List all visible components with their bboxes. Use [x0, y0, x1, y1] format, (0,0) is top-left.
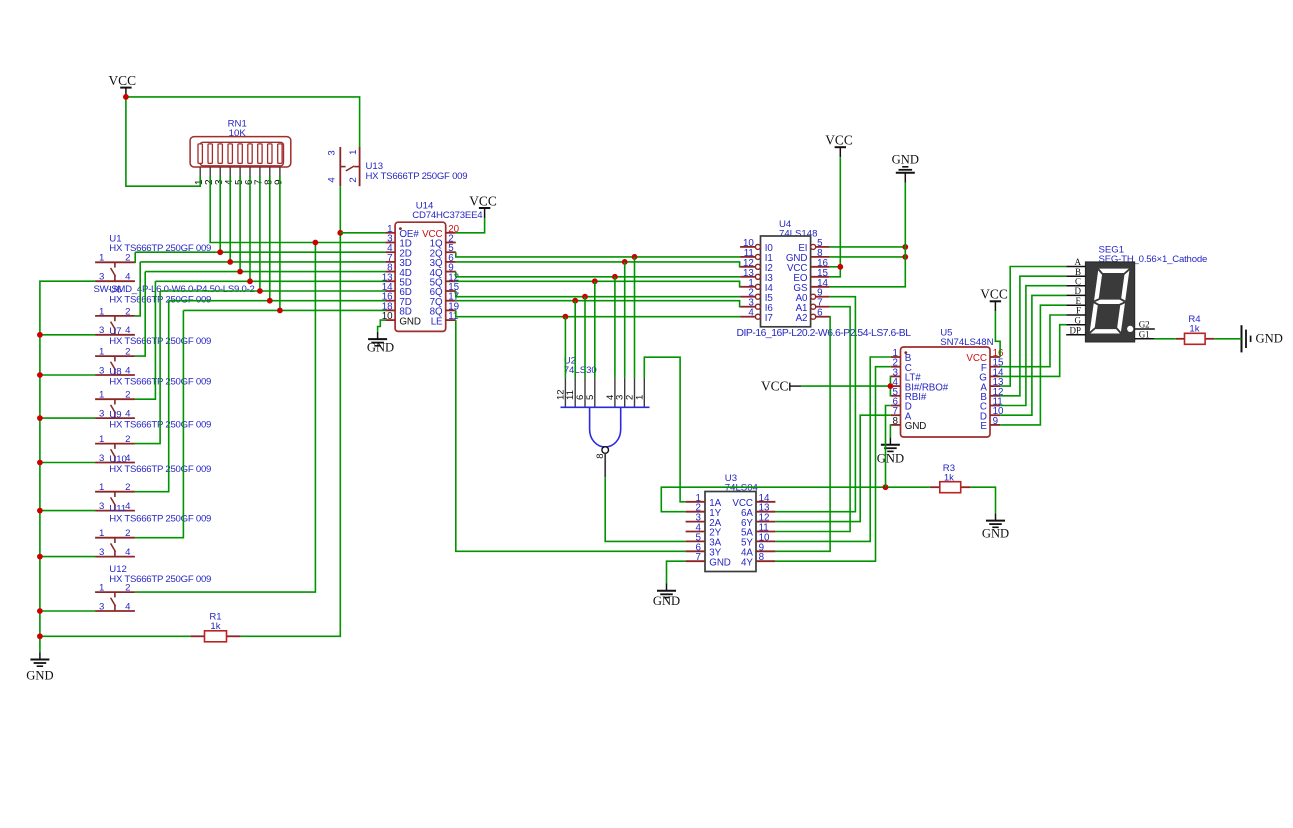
- wire segment net G: [1000, 325, 1066, 377]
- svg-text:4Y: 4Y: [741, 557, 753, 568]
- wire net 8Q to U4: [456, 310, 740, 377]
- wire VCC rail top: [123, 94, 360, 186]
- wire net 4D: [135, 176, 386, 356]
- wire net 8D: [135, 176, 386, 538]
- pin 13 6A: [756, 511, 775, 513]
- pin 4: [614, 378, 616, 408]
- pin 12: [564, 378, 566, 408]
- svg-text:DP: DP: [1069, 325, 1081, 335]
- pin 12 B: [990, 395, 1000, 397]
- wire U5 D down to R3 net: [886, 406, 891, 488]
- pin 5 3A: [686, 540, 705, 542]
- switch U1: [95, 233, 211, 282]
- IC U3 74LS04 hex inverter: [686, 473, 776, 571]
- switch U8: [95, 367, 211, 420]
- pin 10 I0: [740, 246, 756, 248]
- pin D: [1066, 294, 1085, 296]
- pin G2: [1135, 328, 1155, 330]
- net label VCC (U5 BI#/RBO#): [761, 378, 801, 393]
- segment C: [1117, 302, 1126, 333]
- wire U4 A0 to U3 6A: [775, 297, 855, 512]
- wire net 1D: [135, 176, 386, 592]
- svg-text:HX TS666TP 250GF 009: HX TS666TP 250GF 009: [109, 464, 211, 475]
- wire GND2 vertical to GS: [830, 183, 906, 287]
- pin 2 C: [891, 366, 901, 368]
- resistor R3 1k: [930, 463, 971, 493]
- pin 5 RBI#: [891, 395, 901, 397]
- pin 3: [624, 378, 626, 408]
- wire segment net D: [1000, 295, 1066, 415]
- pin 5 2Q: [446, 251, 456, 253]
- wire net 5D: [135, 176, 386, 399]
- wire segment net A: [1000, 267, 1066, 387]
- pin 15 F: [990, 366, 1000, 368]
- pin 6 3Q: [446, 261, 456, 263]
- pin 9 E: [990, 424, 1000, 426]
- svg-text:LE: LE: [431, 316, 443, 327]
- wire U5 LT#/RBI#/BI# bracket: [801, 376, 893, 395]
- pin 9 4Q: [446, 271, 456, 273]
- wire segment net F: [1000, 315, 1066, 367]
- svg-text:VCC: VCC: [469, 193, 497, 208]
- wire net 5Q to U4: [456, 278, 740, 377]
- pin 8 4Y: [756, 560, 775, 562]
- pin 4 2Y: [686, 531, 705, 533]
- pin 8 4D: [385, 271, 395, 273]
- pin 16 7D: [385, 300, 395, 302]
- wire net 6D: [135, 176, 386, 444]
- wire SEG1 G1 to R4 to GND: [1155, 338, 1242, 340]
- svg-text:A: A: [1075, 257, 1082, 267]
- power flag VCC above U4: [825, 133, 853, 158]
- pin C: [1066, 285, 1085, 287]
- pin 12 5Q: [446, 280, 456, 282]
- wire U4 EI row: [830, 244, 908, 250]
- pin 7 3D: [385, 261, 395, 263]
- wire U13 pin4 to OE# and R1: [241, 186, 344, 636]
- pin 8 GND: [891, 424, 901, 426]
- wire U3 5Y to U5 B: [775, 357, 890, 541]
- pin 10 5Y: [756, 540, 775, 542]
- IC U4 74LS148 priority encoder: [736, 219, 911, 339]
- svg-text:4: 4: [327, 177, 338, 183]
- display SEG1 SEG-TH 7-segment: [1066, 244, 1207, 342]
- ground symbol GND below U5: [877, 437, 904, 465]
- pin 7 GND: [686, 560, 705, 562]
- pin 1 1A: [686, 501, 705, 503]
- pin 3 1D: [385, 242, 395, 244]
- pin 3 I6: [740, 306, 756, 308]
- wire U14 GND pin10: [378, 320, 386, 332]
- svg-text:74LS30: 74LS30: [564, 365, 597, 376]
- svg-text:A2: A2: [796, 313, 808, 324]
- svg-text:9: 9: [993, 416, 998, 427]
- wire U3 4Y to U5 C: [775, 367, 890, 562]
- svg-text:DIP-16_16P-L20.2-W6.6-P2.54-LS: DIP-16_16P-L20.2-W6.6-P2.54-LS7.6-BL: [736, 328, 911, 339]
- pin 20 VCC: [446, 232, 456, 234]
- pin G1: [1135, 338, 1155, 340]
- segment G: [1094, 299, 1125, 305]
- wire net 3Q to U4: [456, 259, 740, 378]
- pin 8 output: [602, 447, 609, 454]
- wire U2 pin1 to U3 1A: [644, 357, 685, 502]
- pin 1: [643, 378, 645, 408]
- ground symbol GND below U14: [367, 332, 394, 355]
- pin 15 EO: [811, 276, 830, 278]
- pin 9 4A: [756, 550, 775, 552]
- svg-text:8: 8: [759, 552, 765, 563]
- svg-text:GND: GND: [905, 421, 926, 432]
- switch U13: [327, 147, 468, 186]
- svg-text:D: D: [1075, 286, 1082, 296]
- resistor network RN1 10K: [190, 119, 291, 186]
- wire U4 A2 to U3 4A: [775, 317, 830, 552]
- pin 14 6D: [385, 290, 395, 292]
- ground symbol GND below R3: [982, 513, 1009, 540]
- pin A: [1066, 266, 1085, 268]
- pin 13 5D: [385, 280, 395, 282]
- decimal point: [1127, 326, 1133, 332]
- wire U14 LE to U3 3Y: [456, 320, 686, 551]
- wire segment net B: [1000, 276, 1066, 396]
- segment B: [1121, 269, 1131, 301]
- svg-text:GND: GND: [982, 527, 1009, 541]
- svg-text:6: 6: [817, 308, 823, 319]
- pin 11 LE: [446, 319, 456, 321]
- segment F: [1093, 269, 1102, 301]
- svg-text:G2: G2: [1139, 320, 1150, 330]
- pin 14 G: [990, 375, 1000, 377]
- svg-text:E: E: [1076, 296, 1082, 306]
- wire net 6Q to U4: [456, 291, 740, 378]
- svg-text:1: 1: [348, 150, 359, 155]
- pin 9 A0: [816, 296, 830, 298]
- segment E: [1089, 302, 1098, 333]
- switch U11: [95, 504, 211, 559]
- pin 6 D: [891, 405, 901, 407]
- pin F: [1066, 314, 1085, 316]
- wire net 3D: [135, 176, 386, 316]
- pin 6 3Y: [686, 550, 705, 552]
- pin 2 1Q: [446, 242, 456, 244]
- svg-text:G1: G1: [1139, 330, 1150, 340]
- svg-text:I7: I7: [765, 313, 773, 324]
- wire net 2D: [135, 176, 386, 262]
- segment D: [1089, 329, 1121, 335]
- pin 15 6Q: [446, 290, 456, 292]
- pin 1 B: [891, 356, 901, 358]
- svg-text:1: 1: [634, 395, 645, 400]
- pin 2 I5: [740, 296, 756, 298]
- wire U3 1Y to R3 net: [661, 484, 930, 511]
- pin 8 GND: [811, 256, 830, 258]
- svg-text:GND: GND: [1256, 332, 1283, 346]
- power flag VCC above U5: [980, 287, 1008, 312]
- pin 4 BI#/RBO#: [891, 385, 901, 387]
- pin 2: [634, 378, 636, 408]
- wire segment net E: [1000, 305, 1066, 425]
- pin DP: [1066, 334, 1085, 336]
- svg-text:C: C: [1075, 276, 1081, 286]
- wire segment net C: [1000, 286, 1066, 406]
- pin 7 A: [891, 414, 901, 416]
- pin E: [1066, 304, 1085, 306]
- pin 14 VCC: [756, 501, 775, 503]
- svg-text:2: 2: [348, 177, 359, 182]
- pin 19 8Q: [446, 309, 456, 311]
- IC U5 SN74LS48N BCD to 7-seg decoder: [891, 328, 1004, 437]
- power flag VCC above U14: [469, 193, 497, 218]
- svg-text:CD74HC373EE4: CD74HC373EE4: [412, 210, 483, 221]
- wire net 7D: [135, 176, 386, 492]
- pin 5: [594, 378, 596, 408]
- switch U10: [95, 454, 211, 512]
- svg-text:B: B: [1075, 267, 1081, 277]
- pin 7 A1: [816, 306, 830, 308]
- svg-text:HX TS666TP 250GF 009: HX TS666TP 250GF 009: [366, 171, 468, 182]
- pin 16 VCC: [811, 266, 830, 268]
- power flag VCC top-left: [109, 73, 137, 98]
- svg-text:10K: 10K: [229, 128, 247, 139]
- svg-text:E: E: [980, 421, 987, 432]
- wire U3 GND: [667, 561, 686, 583]
- svg-text:GND: GND: [26, 669, 53, 683]
- ground symbol GND bottom-left: [26, 652, 53, 682]
- svg-text:GND: GND: [709, 557, 730, 568]
- pin 11: [574, 378, 576, 408]
- pin 4 2D: [385, 251, 395, 253]
- pin 12 I2: [740, 266, 756, 268]
- pin 2 1Y: [686, 511, 705, 513]
- pin 10 GND: [385, 319, 395, 321]
- svg-text:VCC: VCC: [825, 133, 853, 148]
- resistor R1 1k: [190, 611, 240, 642]
- pin 16 VCC: [990, 356, 1000, 358]
- svg-text:GND: GND: [877, 452, 904, 466]
- pin 3 LT#: [891, 375, 901, 377]
- wire switch common bus to GND: [37, 281, 190, 652]
- svg-text:8: 8: [595, 454, 606, 459]
- svg-text:5: 5: [585, 395, 596, 400]
- svg-text:HX TS666TP 250GF 009: HX TS666TP 250GF 009: [109, 513, 211, 524]
- wire U4 GND row: [830, 254, 908, 260]
- svg-text:F: F: [1076, 306, 1081, 316]
- svg-text:GND: GND: [653, 594, 680, 608]
- wire net 7Q to U4: [456, 298, 740, 378]
- pin 1 OE#: [385, 232, 395, 234]
- svg-text:G: G: [1075, 315, 1082, 325]
- switch U9: [95, 410, 211, 464]
- switch U12: [95, 564, 211, 612]
- svg-text:GND: GND: [399, 316, 420, 327]
- wire U5 GND: [889, 425, 891, 438]
- resistor R4 1k: [1176, 314, 1215, 344]
- gate U2 74LS30 8-input NAND: [555, 356, 649, 478]
- svg-text:3: 3: [327, 150, 338, 155]
- switch U6 (SW-SMD_4P): [94, 284, 255, 336]
- svg-text:7: 7: [695, 552, 700, 563]
- pin 10 D: [990, 414, 1000, 416]
- ground symbol GND right of R4 (rotated): [1242, 325, 1283, 352]
- pin 11 C: [990, 405, 1000, 407]
- svg-text:VCC: VCC: [109, 73, 137, 88]
- pin B: [1066, 275, 1085, 277]
- ground symbol GND above U4 (inverted): [892, 153, 919, 183]
- pin G: [1066, 324, 1085, 326]
- pin 6 A2: [816, 316, 830, 318]
- pin 13 I3: [740, 276, 756, 278]
- pin 6: [584, 378, 586, 408]
- pin 11 5A: [756, 531, 775, 533]
- svg-text:GND: GND: [367, 341, 394, 355]
- pin 18 8D: [385, 309, 395, 311]
- svg-text:GND: GND: [892, 153, 919, 167]
- pin 11 I1: [740, 256, 756, 258]
- wire VCC3 vertical to U4 VCC and EO: [830, 157, 843, 277]
- pin 4 I7: [740, 316, 756, 318]
- pin 13 A: [990, 385, 1000, 387]
- svg-text:4: 4: [748, 308, 754, 319]
- wire U14 VCC pin20: [456, 218, 485, 233]
- wire net 2Q to U4: [456, 252, 740, 377]
- wire R3 right to GND: [971, 487, 996, 513]
- IC U14 CD74HC373EE4 latch: [382, 200, 483, 331]
- svg-text:8: 8: [893, 416, 899, 427]
- switch U7: [95, 326, 211, 376]
- wire U4 A1 to U3 5A: [775, 307, 850, 532]
- wire OE# row: [340, 232, 385, 234]
- pin 12 6Y: [756, 521, 775, 523]
- wire net 4Q to U4: [456, 272, 740, 378]
- svg-text:VCC: VCC: [761, 378, 789, 393]
- pin 5 EI: [816, 246, 830, 248]
- wire U3 6Y to U5 A: [775, 415, 890, 521]
- wire U2 output to U3 3A: [605, 477, 685, 541]
- svg-text:VCC: VCC: [980, 287, 1008, 302]
- pin 14 GS: [811, 286, 830, 288]
- pin 1 I4: [740, 286, 756, 288]
- ground symbol GND below U3: [653, 584, 680, 609]
- wire VCC4 to U5 pin16: [995, 311, 1000, 357]
- pin 17 7Q: [446, 300, 456, 302]
- pin 3 2A: [686, 521, 705, 523]
- segment A: [1098, 268, 1130, 274]
